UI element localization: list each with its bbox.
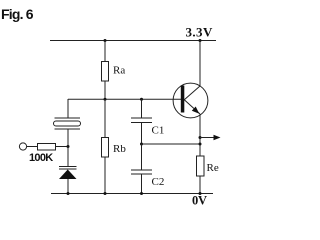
- node junction emitter-output: [199, 136, 202, 139]
- svg-text:Rb: Rb: [113, 143, 126, 155]
- node junction Ra-rail: [104, 39, 107, 42]
- wire Rb bottom lead: [104, 157, 106, 194]
- resistor Ra: [102, 62, 126, 82]
- resistor Re: [197, 156, 219, 176]
- wire base bus: [68, 98, 181, 100]
- wire Ra bottom lead: [104, 81, 106, 99]
- wire R1 to node: [56, 146, 69, 148]
- svg-text:100K: 100K: [29, 152, 53, 164]
- wire C2 bottom lead: [141, 174, 143, 194]
- node junction Re-ground: [199, 192, 202, 195]
- wire varactor top lead: [67, 147, 69, 167]
- wire varactor bottom lead: [67, 179, 69, 194]
- wire 0V ground rail: [51, 193, 213, 195]
- wire emitter vertical: [199, 114, 201, 156]
- wire feedback to emitter: [142, 143, 201, 145]
- input terminal: [19, 143, 26, 150]
- capacitor C1: [131, 118, 164, 137]
- svg-text:Re: Re: [207, 162, 219, 174]
- resistor Rb: [102, 138, 127, 158]
- wire Rb top lead: [104, 99, 106, 138]
- wire collector vertical: [199, 41, 201, 87]
- node junction Ra-Rb-base: [104, 98, 107, 101]
- wire 3.3V supply rail: [50, 40, 216, 42]
- svg-text:Ra: Ra: [113, 65, 125, 77]
- node junction emitter-feedback: [199, 143, 202, 146]
- svg-text:3.3V: 3.3V: [186, 25, 213, 40]
- wire C2 top lead: [141, 144, 143, 170]
- varactor diode D1: [59, 167, 77, 180]
- transistor Q1: [173, 83, 208, 118]
- node junction Rb-ground: [104, 192, 107, 195]
- wire Ra top lead: [104, 41, 106, 62]
- wire Re bottom lead: [199, 176, 201, 194]
- node junction diode-ground: [67, 192, 70, 195]
- svg-text:C2: C2: [152, 176, 165, 188]
- capacitor C2: [131, 170, 164, 188]
- resistor R1 100K: [29, 144, 56, 165]
- node junction C2-ground: [140, 192, 143, 195]
- wire C1 top lead: [141, 99, 143, 118]
- wire crystal bottom lead: [67, 129, 69, 147]
- wire C1 bottom lead: [141, 123, 143, 145]
- svg-text:0V: 0V: [192, 194, 207, 208]
- output arrow: [200, 135, 221, 140]
- svg-text:Fig. 6: Fig. 6: [1, 6, 34, 22]
- wire terminal to R1: [27, 146, 38, 148]
- crystal X1: [54, 118, 81, 129]
- node junction collector-rail: [199, 39, 202, 42]
- wire crystal top lead: [67, 99, 69, 118]
- node junction R1-crystal-diode: [67, 145, 70, 148]
- svg-text:C1: C1: [152, 125, 165, 137]
- node junction C1-base: [140, 98, 143, 101]
- node junction C1-C2-feedback: [140, 143, 143, 146]
